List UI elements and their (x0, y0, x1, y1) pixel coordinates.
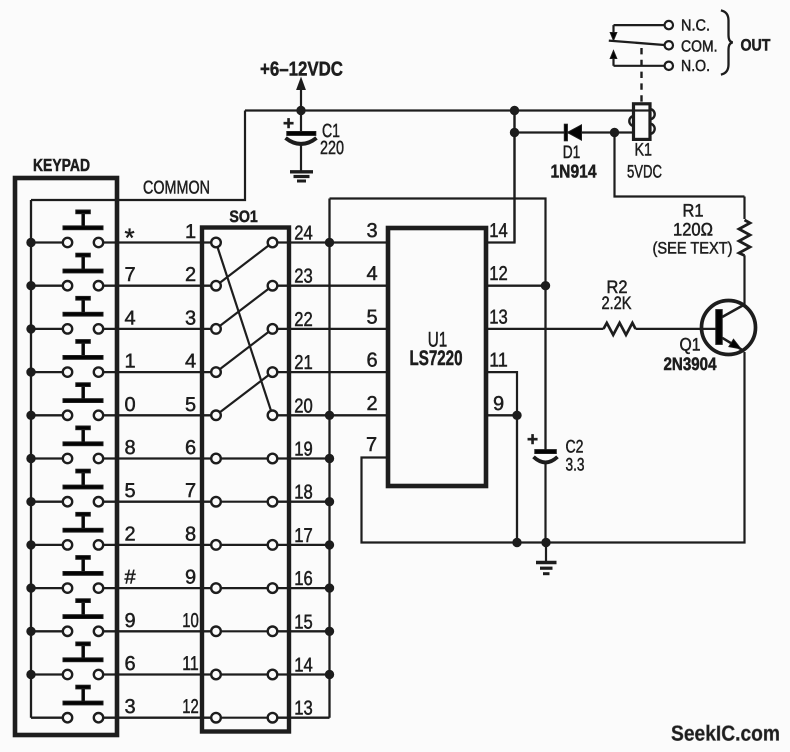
svg-text:6: 6 (366, 350, 377, 372)
svg-text:N.O.: N.O. (681, 58, 710, 75)
svg-text:5: 5 (185, 394, 196, 416)
SO1 left pin 6 contact (211, 454, 221, 464)
SO1 right pin 24 contact (268, 238, 278, 248)
wire U1 pin 14 to +V rail (486, 111, 515, 243)
svg-text:SO1: SO1 (229, 208, 258, 226)
wire bus to switch S3 (31, 328, 63, 330)
keypad enclosure box (15, 178, 117, 735)
terminal COM (665, 41, 673, 49)
svg-text:N.C.: N.C. (681, 18, 710, 35)
junction bus at pin 15 row (325, 627, 333, 635)
SO1 internal link pin 9 to pin 16 (221, 587, 268, 589)
SO1 right pin 16 contact (268, 583, 278, 593)
wire U1 pin 13 to R2 (486, 328, 604, 330)
wire bus to switch S1 (31, 241, 63, 243)
pushbutton switch S7 key "5" (63, 469, 103, 506)
wire R2 to Q1 base (636, 328, 716, 330)
svg-text:120Ω: 120Ω (673, 220, 713, 240)
svg-text:COMMON: COMMON (143, 177, 210, 198)
ground symbol under C1 (290, 172, 313, 181)
svg-text:5: 5 (124, 480, 135, 502)
junction bus row 2 (27, 282, 35, 290)
svg-text:2.2K: 2.2K (602, 293, 632, 313)
svg-text:8: 8 (124, 437, 135, 459)
wire switch S5 to SO1 pin 5 (103, 414, 211, 416)
SO1 right pin 18 contact (268, 497, 278, 507)
IC U1 LS7220 box (388, 228, 486, 486)
wire pin 9 net down to ground rail (516, 415, 518, 542)
svg-text:(SEE TEXT): (SEE TEXT) (653, 240, 733, 258)
relay coil K1 (629, 104, 654, 140)
resistor R2 (604, 323, 636, 335)
wire pin 12 net down to C2 (544, 286, 546, 450)
svg-text:2: 2 (366, 393, 377, 415)
SO1 right pin 22 contact (268, 324, 278, 334)
svg-text:+: + (283, 114, 294, 135)
junction bus row 11 (27, 670, 35, 678)
SO1 crossed link pin 1 to pin 20 (long diagonal) (218, 247, 272, 411)
svg-text:6: 6 (185, 437, 196, 459)
junction bus row 3 (27, 325, 35, 333)
wire bus to switch S12 (31, 717, 63, 719)
svg-text:#: # (124, 567, 136, 589)
svg-text:15: 15 (294, 611, 313, 633)
wire SO1 pin 14 row (277, 673, 329, 675)
wire bus to switch S6 (31, 457, 63, 459)
relay COM armature (609, 41, 665, 45)
pushbutton switch S2 key "7" (63, 253, 103, 290)
connector SO1 box (202, 228, 289, 732)
junction bus row 6 (27, 454, 35, 462)
svg-text:21: 21 (294, 352, 313, 374)
wire bus to switch S7 (31, 501, 63, 503)
svg-text:8: 8 (185, 523, 196, 545)
junction bus at pin 19 row (325, 454, 333, 462)
wire switch S3 to SO1 pin 3 (103, 328, 211, 330)
wire bus to switch S9 (31, 587, 63, 589)
relay armature dashed link (640, 48, 642, 103)
svg-text:23: 23 (294, 266, 313, 288)
wire COMMON bus to +V rail (31, 111, 245, 201)
wire switch S4 to SO1 pin 4 (103, 371, 211, 373)
SO1 crossed link pin 3 to pin 23 (220, 289, 269, 326)
svg-text:220: 220 (320, 138, 344, 159)
svg-text:1N914: 1N914 (551, 161, 598, 182)
wire SO1 pin 13 row (277, 717, 329, 719)
svg-text:3: 3 (366, 220, 377, 242)
SO1 left pin 5 contact (211, 411, 221, 421)
SO1 right pin 17 contact (268, 540, 278, 550)
svg-text:9: 9 (124, 610, 135, 632)
wire switch S10 to SO1 pin 10 (103, 630, 211, 632)
svg-text:3: 3 (185, 307, 196, 329)
wire SO1 pin 22 row (277, 328, 388, 330)
svg-text:LS7220: LS7220 (410, 347, 463, 370)
wire K1 net down and right to R1 (615, 133, 745, 197)
svg-text:4: 4 (366, 263, 377, 285)
svg-text:12: 12 (182, 696, 199, 718)
wire diode row (515, 131, 634, 133)
svg-text:OUT: OUT (741, 37, 771, 55)
transistor Q1 2N3904 (702, 301, 756, 355)
SO1 left pin 8 contact (211, 540, 221, 550)
svg-text:16: 16 (294, 568, 313, 590)
SO1 left pin 3 contact (211, 324, 221, 334)
wire switch S11 to SO1 pin 11 (103, 673, 211, 675)
wire bus to switch S4 (31, 371, 63, 373)
pushbutton switch S5 key "0" (63, 383, 103, 420)
svg-text:0: 0 (124, 394, 135, 416)
SO1 crossed link pin 4 to pin 22 (220, 332, 269, 369)
svg-text:4: 4 (124, 307, 135, 329)
relay N.C. contact wire with arrow (610, 25, 664, 40)
junction bus at pin 16 row (325, 584, 333, 592)
svg-text:COM.: COM. (681, 38, 718, 55)
SO1 internal link pin 11 to pin 14 (221, 673, 268, 675)
junction bus row 10 (27, 627, 35, 635)
relay N.O. contact wire with arrow (610, 51, 664, 66)
SO1 left pin 12 contact (211, 713, 221, 723)
SO1 right pin 13 contact (268, 713, 278, 723)
junction bus row 7 (27, 498, 35, 506)
svg-text:9: 9 (185, 567, 196, 589)
wire SO1 pin 21 row (277, 371, 388, 373)
SO1 crossed link pin 2 to pin 24 (220, 246, 269, 283)
svg-text:14: 14 (489, 220, 508, 242)
svg-text:7: 7 (185, 480, 196, 502)
junction bus at pin 24 row (325, 238, 333, 246)
svg-text:C2: C2 (566, 436, 584, 456)
junction U1 pin 12 net (541, 282, 549, 290)
pushbutton switch S9 key "#" (63, 556, 103, 593)
pushbutton switch S1 key "*" (63, 210, 103, 247)
svg-text:10: 10 (182, 610, 199, 632)
svg-text:7: 7 (366, 434, 377, 456)
SO1 left pin 7 contact (211, 497, 221, 507)
wire pin14 riser to diode row (513, 111, 515, 243)
junction ground rail / C2 (542, 538, 550, 546)
svg-text:6: 6 (124, 653, 135, 675)
wire SO1 pin 19 row (277, 457, 329, 459)
+V supply rail (245, 109, 633, 111)
svg-text:KEYPAD: KEYPAD (33, 155, 90, 175)
svg-text:1: 1 (124, 351, 135, 373)
junction rail / C1 (297, 106, 305, 114)
terminal N.O. (665, 62, 673, 70)
SO1 left pin 1 contact (211, 238, 221, 248)
svg-text:18: 18 (294, 482, 313, 504)
svg-text:D1: D1 (563, 142, 581, 162)
wire switch S7 to SO1 pin 7 (103, 501, 211, 503)
junction bus at pin 18 row (325, 498, 333, 506)
SO1 right pin 15 contact (268, 627, 278, 637)
wire switch S9 to SO1 pin 9 (103, 587, 211, 589)
junction diode row / K1 drop (610, 128, 618, 136)
svg-text:19: 19 (294, 439, 313, 461)
svg-text:2: 2 (124, 523, 135, 545)
svg-text:3: 3 (124, 696, 135, 718)
diode D1 1N914 (564, 124, 581, 141)
wire SO1 pin 16 row (277, 587, 329, 589)
pushbutton switch S6 key "8" (63, 426, 103, 463)
wire bus top to U1 pin 12 net (330, 199, 546, 286)
junction bus row 8 (27, 541, 35, 549)
SO1 left pin 9 contact (211, 583, 221, 593)
pushbutton switch S3 key "4" (63, 296, 103, 333)
svg-text:11: 11 (182, 653, 199, 675)
wire switch S2 to SO1 pin 2 (103, 285, 211, 287)
capacitor C1 (286, 111, 317, 171)
wire bus to switch S5 (31, 414, 63, 416)
svg-text:22: 22 (294, 309, 313, 331)
svg-text:4: 4 (185, 351, 196, 373)
junction riser / diode row (510, 128, 518, 136)
wire U1 pin 11 down to pin 9 (486, 372, 517, 415)
svg-text:SeekIC.com: SeekIC.com (671, 722, 780, 746)
svg-text:14: 14 (294, 655, 313, 677)
capacitor C2 (534, 450, 558, 543)
pushbutton switch S4 key "1" (63, 340, 103, 377)
wire switch S12 to SO1 pin 12 (103, 717, 211, 719)
wire SO1 pin 24 row (277, 241, 388, 243)
junction bus row 9 (27, 584, 35, 592)
junction ground rail / pin9 net (513, 538, 521, 546)
wire SO1 pin 23 row (277, 285, 388, 287)
svg-text:2: 2 (185, 264, 196, 286)
svg-text:1: 1 (185, 221, 196, 243)
wire switch S6 to SO1 pin 6 (103, 457, 211, 459)
SO1 crossed link pin 5 to pin 21 (220, 375, 269, 412)
svg-text:+: + (527, 430, 538, 451)
wire bus to switch S10 (31, 630, 63, 632)
wire U1 pin 7 to ground rail / bottom rail to Q1 emitter (362, 352, 745, 543)
SO1 left pin 4 contact (211, 367, 221, 377)
svg-text:3.3: 3.3 (566, 454, 585, 474)
SO1 right pin 21 contact (268, 367, 278, 377)
output brace (721, 10, 733, 74)
svg-text:9: 9 (493, 393, 504, 415)
wire SO1 pin 17 row (277, 544, 329, 546)
wire bus to switch S11 (31, 673, 63, 675)
svg-text:5VDC: 5VDC (627, 162, 662, 182)
SO1 internal link pin 10 to pin 15 (221, 630, 268, 632)
svg-text:Q1: Q1 (680, 335, 701, 355)
wire bus to switch S2 (31, 285, 63, 287)
SO1 left pin 10 contact (211, 627, 221, 637)
junction bus at pin 14 row (325, 670, 333, 678)
svg-text:*: * (124, 223, 134, 253)
svg-text:+6–12VDC: +6–12VDC (260, 59, 343, 81)
wire U1 pin 9 stub (486, 414, 517, 416)
pushbutton switch S10 key "9" (63, 599, 103, 636)
junction bus row 5 (27, 411, 35, 419)
pushbutton switch S12 key "3" (63, 685, 103, 722)
wire bus to switch S8 (31, 544, 63, 546)
pushbutton switch S8 key "2" (63, 512, 103, 549)
SO1 internal link pin 7 to pin 18 (221, 501, 268, 503)
terminal N.C. (665, 21, 673, 29)
SO1 internal link pin 6 to pin 19 (221, 457, 268, 459)
svg-text:12: 12 (489, 263, 508, 285)
svg-text:5: 5 (366, 306, 377, 328)
keypad common bus wire (30, 200, 32, 718)
svg-text:13: 13 (489, 306, 508, 328)
pushbutton switch S11 key "6" (63, 642, 103, 679)
svg-text:2N3904: 2N3904 (664, 354, 717, 374)
svg-text:17: 17 (294, 525, 313, 547)
junction rail / pin14 riser (510, 106, 518, 114)
wire SO1 pin 15 row (277, 630, 329, 632)
junction bus row 1 (27, 238, 35, 246)
SO1 internal link pin 8 to pin 17 (221, 544, 268, 546)
resistor R1 (739, 197, 750, 306)
SO1 left pin 2 contact (211, 281, 221, 291)
supply arrow up (297, 78, 305, 111)
junction bus at pin 17 row (325, 541, 333, 549)
wire switch S1 to SO1 pin 1 (103, 241, 211, 243)
svg-text:13: 13 (294, 698, 313, 720)
SO1 right pin 14 contact (268, 670, 278, 680)
svg-text:K1: K1 (635, 140, 653, 160)
svg-text:24: 24 (294, 223, 313, 245)
wire SO1 pin 20 row (277, 414, 388, 416)
SO1 internal link pin 12 to pin 13 (221, 717, 268, 719)
svg-text:R1: R1 (683, 201, 704, 221)
SO1 right pin 20 contact (268, 411, 278, 421)
junction bus at pin 20 row (325, 411, 333, 419)
wire SO1 pin 18 row (277, 501, 329, 503)
svg-text:11: 11 (489, 350, 508, 372)
junction bus row 4 (27, 368, 35, 376)
ground symbol main (536, 543, 557, 574)
svg-text:20: 20 (294, 395, 313, 417)
junction pin 9 / pin 11 (513, 411, 521, 419)
SO1 left pin 11 contact (211, 670, 221, 680)
net bus vertical (pins 24/20/19-13 common) (328, 199, 330, 718)
SO1 right pin 23 contact (268, 281, 278, 291)
wire switch S8 to SO1 pin 8 (103, 544, 211, 546)
SO1 right pin 19 contact (268, 454, 278, 464)
wire U1 pin 12 stub (486, 285, 546, 287)
svg-text:7: 7 (124, 264, 135, 286)
